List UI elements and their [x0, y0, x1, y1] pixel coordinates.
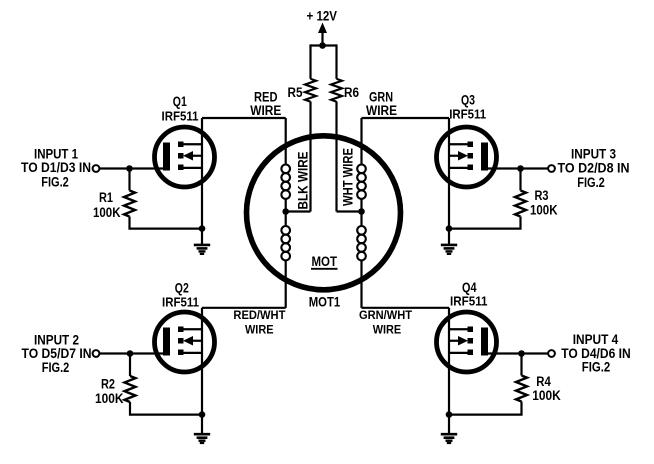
wire: +12V rail to R5/R6 tops [311, 44, 337, 46]
resistor R4 [516, 376, 527, 402]
wire: GRN wire rail from right winding to Q3 drain [362, 117, 450, 119]
ground: Q4 source [441, 415, 457, 443]
wire: RED/WHT rail from Q2 drain to left winding [202, 307, 286, 309]
svg-text:WIRE: WIRE [250, 103, 281, 118]
svg-text:BLK WIRE: BLK WIRE [296, 151, 311, 209]
node: Q3 gate junction dot [517, 165, 524, 172]
svg-text:IRF511: IRF511 [450, 294, 488, 309]
node: Q1 source-ground junction dot [199, 225, 206, 232]
wire: R3 bottom lead to Q3 source [449, 217, 521, 229]
wire: left winding center [285, 199, 287, 227]
terminal: INPUT 3 [548, 165, 555, 172]
wire: R4 bottom lead to Q4 source [449, 402, 522, 415]
wire: R5 top lead [309, 44, 311, 78]
wire: R6 top lead [335, 44, 337, 78]
transistor Q3 [437, 127, 497, 187]
node: Q4 gate junction dot [518, 350, 525, 357]
svg-text:IRF511: IRF511 [449, 107, 486, 122]
wire: Q4 gate to input 4 [487, 352, 548, 354]
transistor Q1 [155, 127, 215, 187]
svg-text:IRF511: IRF511 [162, 294, 199, 309]
resistor R1 [124, 191, 135, 217]
wire: RED wire rail from Q1 drain to left winding [202, 117, 286, 119]
node: Q3 source-ground junction dot [446, 225, 453, 232]
svg-text:R3: R3 [535, 188, 549, 203]
motor MOT1 body circle [247, 136, 401, 290]
inductor: left winding lower coil [281, 226, 290, 260]
wire: left winding center-tap stub [286, 210, 311, 212]
resistor R6 [331, 79, 342, 102]
ground: Q2 source [194, 415, 210, 443]
svg-text:INPUT 3: INPUT 3 [571, 147, 616, 162]
label INPUT 3 [558, 147, 630, 191]
terminal: INPUT 1 [93, 165, 100, 172]
wire: WHT wire from R6 into motor [335, 102, 337, 212]
svg-text:Q1: Q1 [173, 94, 187, 109]
label INPUT 4 [561, 332, 631, 374]
inductor: right winding lower coil [357, 226, 366, 260]
wire: input 1 to Q1 gate [100, 167, 165, 169]
wire: R2 top lead [129, 354, 131, 377]
wire: Q3 drain-source vertical [448, 118, 450, 229]
svg-text:WIRE: WIRE [366, 103, 397, 118]
svg-text:FIG.2: FIG.2 [582, 359, 611, 374]
wire: input 2 to Q2 gate [100, 352, 165, 354]
svg-text:MOT1: MOT1 [309, 295, 341, 310]
wire: R1 bottom lead to Q1 source [130, 217, 203, 229]
wire: right winding upper lead [360, 118, 362, 165]
svg-text:FIG.2: FIG.2 [41, 175, 69, 190]
svg-text:R1: R1 [99, 190, 113, 205]
svg-text:TO D1/D3 IN: TO D1/D3 IN [21, 160, 91, 175]
wire: R1 top lead [128, 169, 130, 191]
svg-text:R5: R5 [288, 85, 303, 100]
svg-text:Q3: Q3 [461, 93, 475, 108]
node: left center-tap junction dot [282, 208, 289, 215]
ground: Q3 source [441, 229, 457, 254]
label INPUT 1 [21, 147, 91, 190]
svg-text:100K: 100K [532, 388, 561, 403]
svg-text:R4: R4 [536, 374, 551, 389]
wire: left winding lower lead to RED/WHT [285, 260, 287, 308]
resistor R5 [305, 79, 316, 102]
wire: R3 top lead [519, 169, 521, 191]
node: Q2 source-ground junction dot [199, 411, 206, 418]
svg-text:MOT: MOT [312, 254, 338, 269]
wire: Q1 drain-source vertical [201, 118, 203, 229]
svg-text:FIG.2: FIG.2 [577, 175, 605, 190]
svg-text:RED/WHT: RED/WHT [233, 308, 286, 322]
node: Q1 gate junction dot [126, 165, 133, 172]
transistor Q4 [437, 312, 497, 372]
svg-text:FIG.2: FIG.2 [42, 360, 70, 375]
svg-text:WHT WIRE: WHT WIRE [341, 148, 356, 206]
wire: Q2 drain-source vertical [201, 308, 203, 415]
label INPUT 2 [22, 333, 92, 375]
wire: BLK wire from R5 into motor [309, 102, 311, 212]
resistor R3 [515, 191, 526, 217]
wire: R2 bottom lead to Q2 source [130, 402, 202, 415]
node: Q2 gate junction dot [127, 350, 134, 357]
inductor: right winding upper coil [357, 165, 366, 199]
node: right center-tap junction dot [358, 208, 365, 215]
wire: right winding lower lead to GRN/WHT [360, 260, 362, 308]
svg-text:100K: 100K [530, 203, 558, 218]
wire: Q4 drain-source vertical [448, 308, 450, 415]
terminal: INPUT 2 [93, 350, 100, 357]
power +12V supply arrow [307, 8, 338, 45]
svg-text:IRF511: IRF511 [162, 108, 199, 123]
node: Q4 source-ground junction dot [446, 411, 453, 418]
svg-text:R2: R2 [101, 377, 115, 392]
terminal: INPUT 4 [548, 350, 555, 357]
svg-text:100K: 100K [93, 205, 121, 220]
svg-text:TO D2/D8 IN: TO D2/D8 IN [558, 161, 630, 176]
svg-text:100K: 100K [95, 391, 124, 406]
transistor Q2 [155, 312, 215, 372]
wire: right winding center-tap stub [337, 210, 362, 212]
node: +12V junction dot [319, 42, 326, 49]
wire: GRN/WHT rail from right winding to Q4 drain [362, 307, 450, 309]
wire: Q3 gate to input 3 [487, 167, 548, 169]
svg-text:Q2: Q2 [175, 281, 189, 296]
motor label MOT [311, 254, 338, 269]
svg-text:+ 12V: + 12V [307, 8, 338, 23]
wire: right winding center [360, 199, 362, 227]
svg-text:WIRE: WIRE [373, 323, 402, 337]
svg-text:R6: R6 [344, 85, 359, 100]
svg-text:WIRE: WIRE [245, 323, 274, 337]
inductor: left winding upper coil [281, 165, 290, 199]
wire: R4 top lead [520, 354, 522, 376]
wire: left winding upper lead [285, 118, 287, 165]
svg-text:GRN/WHT: GRN/WHT [359, 308, 413, 322]
ground: Q1 source [194, 229, 210, 254]
resistor R2 [125, 376, 136, 402]
